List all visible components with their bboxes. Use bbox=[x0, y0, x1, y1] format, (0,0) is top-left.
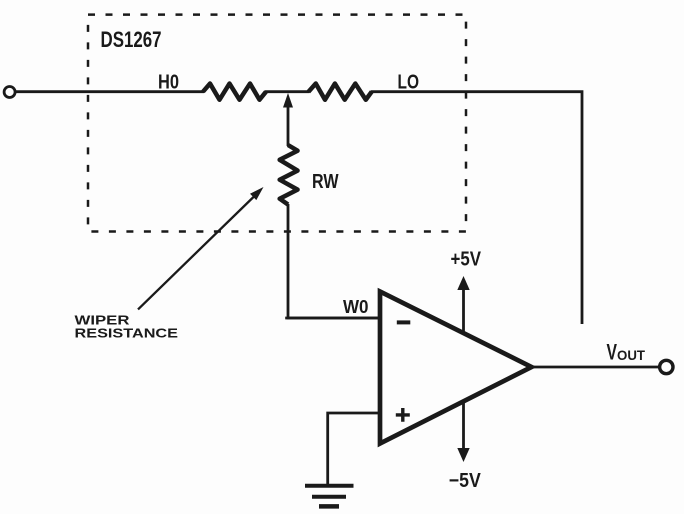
svg-text:LO: LO bbox=[398, 72, 420, 94]
svg-text:W0: W0 bbox=[343, 297, 369, 317]
svg-text:DS1267: DS1267 bbox=[101, 27, 162, 52]
svg-text:H0: H0 bbox=[158, 72, 179, 94]
svg-text:V: V bbox=[607, 340, 618, 365]
svg-text:OUT: OUT bbox=[617, 347, 645, 363]
svg-text:RW: RW bbox=[312, 171, 339, 193]
svg-text:−5V: −5V bbox=[449, 470, 482, 492]
svg-text:RESISTANCE: RESISTANCE bbox=[75, 326, 179, 341]
svg-text:+5V: +5V bbox=[451, 248, 482, 270]
